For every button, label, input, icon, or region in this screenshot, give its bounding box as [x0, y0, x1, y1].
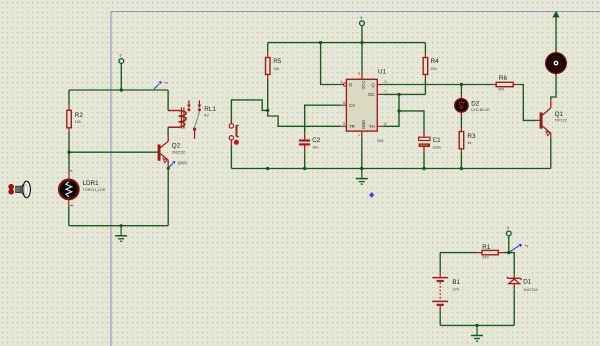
- junction ground rail C2: [303, 167, 306, 170]
- junction R5 trigger node: [266, 109, 269, 112]
- LED D2 LED-BLUE: [455, 95, 490, 117]
- probe marker red dot at button: [234, 140, 239, 145]
- svg-text:TORCH_LDR: TORCH_LDR: [83, 188, 106, 192]
- junction bottom-right ground: [475, 324, 478, 327]
- resistor R6: [492, 75, 517, 92]
- wire reset pin4 to rail: [321, 43, 341, 85]
- svg-text:TH: TH: [369, 124, 375, 129]
- power terminal bottom right: [506, 226, 511, 236]
- svg-text:12V: 12V: [452, 287, 459, 291]
- wire D2 top lead: [460, 85, 462, 95]
- capacitor C1 220u: [419, 131, 442, 152]
- svg-text:R6: R6: [499, 75, 508, 82]
- wire R6 to Q1 base corner: [517, 85, 535, 121]
- relay RL1 contact terminals: [187, 100, 201, 111]
- junction Q2 emitter probe point: [167, 167, 170, 170]
- svg-text:4: 4: [340, 80, 342, 84]
- pushbutton: [229, 119, 239, 145]
- svg-text:R: R: [349, 82, 352, 87]
- wire bottom-left ground net: [69, 225, 168, 227]
- svg-text:2N2222: 2N2222: [172, 151, 185, 155]
- wire R1 right to D1 corner: [503, 253, 514, 275]
- svg-text:R3: R3: [467, 133, 476, 140]
- junction right terminal node: [507, 251, 510, 254]
- transistor Q2 2N2222: [158, 136, 186, 168]
- wire R2 bottom to base node: [68, 133, 70, 152]
- junction DC/TH node: [397, 109, 400, 112]
- resistor R4: [423, 53, 439, 80]
- wire output pin3 net to R6: [383, 84, 492, 86]
- resistor R5: [266, 53, 282, 80]
- relay RL1 core: [181, 108, 184, 129]
- svg-text:6: 6: [385, 122, 387, 126]
- wire battery bottom lead: [439, 310, 441, 325]
- relay RL1 lever: [195, 111, 200, 127]
- svg-text:TR: TR: [349, 124, 355, 129]
- wire base net horizontal to Q2: [69, 151, 158, 153]
- wire rail corner down to relay coil: [167, 90, 169, 111]
- wire speaker top to arrow: [555, 17, 557, 53]
- wire button bottom to ground rail: [230, 146, 232, 169]
- resistor R1: [477, 244, 503, 259]
- svg-text:R1: R1: [482, 244, 491, 251]
- wire R5 top to rail: [267, 43, 269, 53]
- ground bottom right: [471, 325, 483, 341]
- LDR LDR1: [59, 170, 106, 207]
- svg-text:D1: D1: [523, 278, 532, 285]
- svg-text:VCC: VCC: [361, 80, 366, 89]
- svg-text:10k: 10k: [75, 120, 81, 124]
- junction VCC on rail: [360, 41, 363, 44]
- svg-text:7: 7: [385, 90, 387, 94]
- up arrow top right: [552, 11, 559, 18]
- relay RL1 common pin: [193, 128, 196, 139]
- wire Q1 emitter down to ground rail: [550, 138, 552, 169]
- wire base node down to LDR1: [68, 152, 70, 171]
- wire mid terminal down to rail: [361, 26, 363, 43]
- svg-text:LED-BLUE: LED-BLUE: [471, 108, 490, 112]
- wire bottom-right ground net: [440, 324, 514, 326]
- wire R4 top to rail: [424, 43, 426, 53]
- svg-text:0R1: 0R1: [498, 88, 505, 92]
- svg-text:R4: R4: [431, 58, 440, 65]
- wire battery top net: [440, 252, 477, 254]
- svg-text:1k: 1k: [467, 141, 471, 145]
- svg-text:10n: 10n: [312, 145, 318, 149]
- svg-text:220u: 220u: [433, 146, 441, 150]
- svg-text:C1: C1: [433, 137, 442, 144]
- svg-text:R5: R5: [273, 58, 282, 65]
- wire Q2 emitter down to ground net: [167, 168, 169, 225]
- svg-text:1N4733A: 1N4733A: [523, 288, 538, 292]
- relay RL1 coil: [168, 111, 186, 128]
- wire DC node down: [398, 94, 400, 111]
- svg-text:Q2(E): Q2(E): [178, 161, 187, 165]
- junction left ground on wire: [120, 224, 123, 227]
- power terminal left: [119, 54, 124, 64]
- svg-text:370: 370: [482, 256, 488, 260]
- op-amp U1 555 timer body: [341, 71, 384, 137]
- wire R2 top lead: [68, 90, 70, 105]
- svg-text:TIP122: TIP122: [555, 119, 567, 123]
- sheet border: [111, 12, 600, 346]
- annotation red dots far left: [9, 184, 14, 194]
- relay RL1 labels: [204, 106, 216, 118]
- junction pin4 on rail: [319, 41, 322, 44]
- junction base node: [67, 151, 70, 154]
- power terminal mid: [360, 16, 365, 26]
- svg-text:5: 5: [120, 54, 122, 58]
- speaker right: [546, 50, 566, 76]
- ground left: [115, 226, 127, 242]
- wire right terminal down: [508, 236, 510, 253]
- voltage probe +v on left rail: [154, 81, 168, 89]
- svg-text:+v: +v: [164, 81, 168, 85]
- svg-text:B1: B1: [452, 279, 460, 286]
- svg-text:10k: 10k: [273, 67, 279, 71]
- wire R3 bottom to ground rail: [460, 153, 462, 169]
- junction left terminal on rail: [120, 88, 123, 91]
- svg-text:Q2: Q2: [172, 142, 181, 149]
- marker blue diamond: [369, 192, 374, 198]
- svg-text:R2: R2: [75, 112, 84, 119]
- svg-text:+v: +v: [525, 244, 529, 248]
- wire +V left rail: [69, 89, 168, 91]
- transistor Q1 TIP122: [536, 100, 567, 138]
- wire 555 GND down to rail: [361, 137, 363, 168]
- svg-text:C2: C2: [312, 137, 321, 144]
- svg-text:3: 3: [385, 80, 387, 84]
- svg-text:Q1: Q1: [555, 111, 564, 118]
- U1 pin names: [349, 80, 375, 129]
- wire CV pin to C2: [305, 105, 341, 132]
- wire C1 bottom to ground rail: [423, 152, 425, 168]
- svg-text:5: 5: [360, 16, 362, 20]
- voltage probe Q2(E): [169, 161, 187, 168]
- wire relay coil bottom to Q2 collector: [167, 127, 169, 136]
- svg-text:RL1: RL1: [204, 106, 216, 113]
- svg-text:555: 555: [377, 139, 383, 143]
- wire R4 bottom lead: [424, 79, 426, 94]
- capacitor C2: [299, 133, 321, 153]
- wire bottom ground rail: [231, 168, 550, 170]
- junction DC node: [397, 93, 400, 96]
- annotation speaker icon far left: [16, 181, 31, 197]
- wire top +V rail: [268, 42, 426, 44]
- wire battery top lead: [439, 253, 441, 273]
- wire TH pin6 up to node: [383, 111, 399, 126]
- wire D1 bottom lead: [513, 289, 515, 325]
- wire C2 bottom to ground rail: [304, 152, 306, 168]
- svg-text:62k: 62k: [431, 67, 437, 71]
- battery B1 12V: [432, 272, 460, 310]
- junction ground rail C1: [422, 167, 425, 170]
- junction ground rail 555: [360, 167, 363, 170]
- voltage probe +v bottom right: [509, 244, 528, 252]
- junction ground rail a: [266, 167, 269, 170]
- wire R5 bottom lead: [267, 79, 269, 110]
- junction output to D2: [460, 83, 463, 86]
- wire trigger staircase: button top to TR pin: [231, 100, 340, 126]
- resistor R2: [67, 105, 84, 133]
- resistor R3: [459, 127, 476, 153]
- ground mid below 555: [356, 169, 368, 185]
- svg-text:CV: CV: [349, 103, 355, 108]
- junction ground rail R3: [460, 167, 463, 170]
- wire DC/TH node to C1: [399, 111, 424, 131]
- svg-text:U1: U1: [378, 69, 387, 76]
- svg-text:LDR1: LDR1: [83, 180, 100, 187]
- U1 pin numbers: [340, 72, 386, 137]
- svg-text:GND: GND: [361, 120, 366, 130]
- wire LDR1 bottom down: [68, 207, 70, 226]
- wire DC pin7 net: [383, 93, 425, 95]
- wire rail down to VCC stub: [361, 43, 363, 72]
- wire D2 to R3: [460, 116, 462, 127]
- svg-text:5: 5: [507, 226, 509, 230]
- svg-text:2: 2: [343, 122, 345, 126]
- wire Q1 collector jog to speaker: [551, 74, 556, 101]
- svg-text:DC: DC: [368, 92, 374, 97]
- wire from left power terminal down to +V rail: [120, 63, 122, 90]
- svg-text:6V: 6V: [204, 114, 209, 118]
- zener diode D1 1N4733A: [507, 274, 539, 292]
- svg-text:5: 5: [343, 101, 345, 105]
- svg-text:D2: D2: [471, 101, 480, 108]
